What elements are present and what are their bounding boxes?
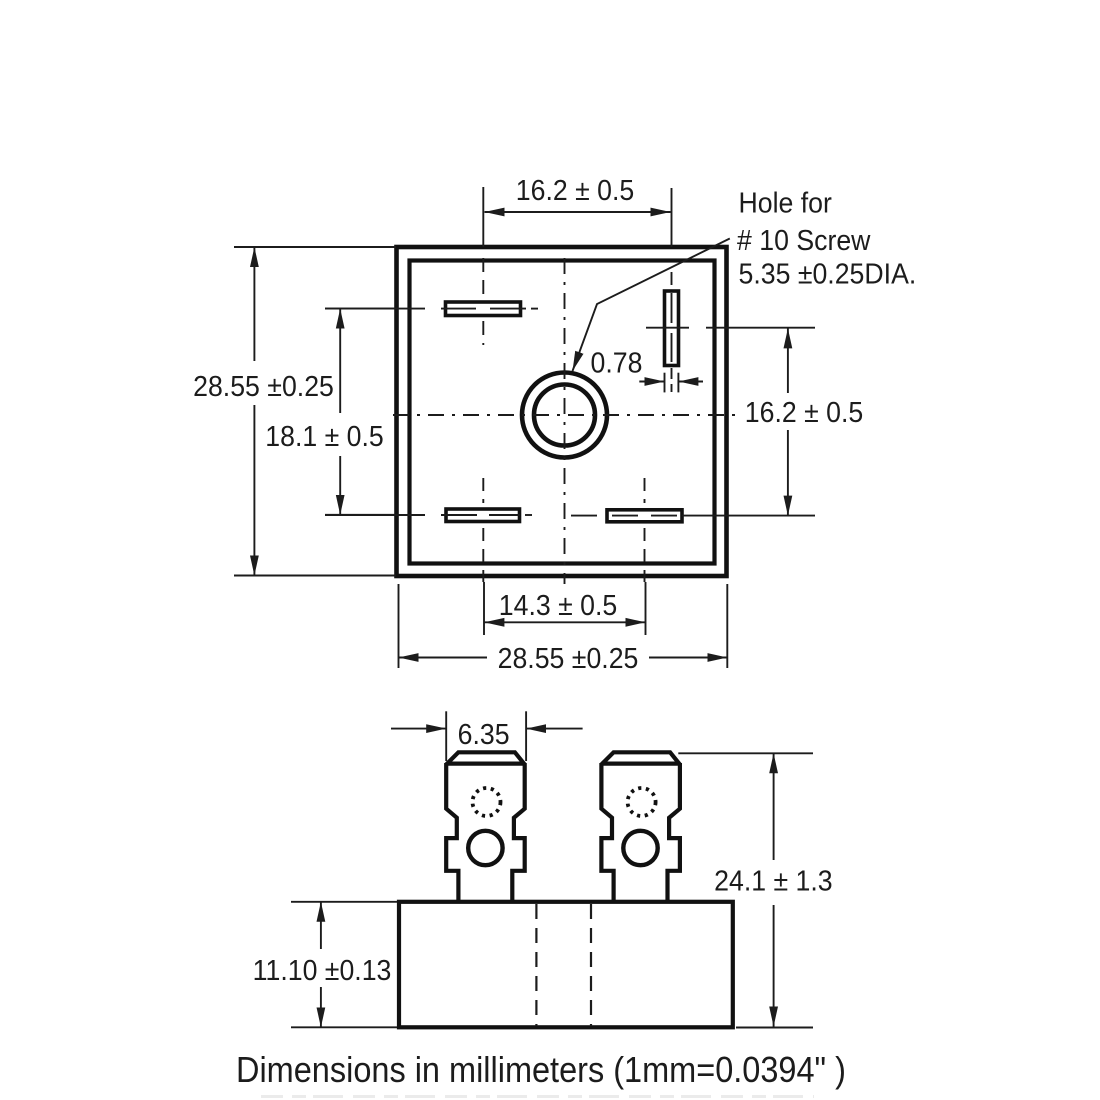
slot terminal bottom-right xyxy=(607,510,682,522)
vertical center line of square xyxy=(564,258,566,584)
svg-text:28.55 ±0.25: 28.55 ±0.25 xyxy=(193,370,334,402)
svg-text:28.55 ±0.25: 28.55 ±0.25 xyxy=(498,642,639,674)
terminal 2 hole circle xyxy=(623,831,657,865)
center line through bottom-left slot xyxy=(325,478,532,582)
svg-text:5.35 ±0.25DIA.: 5.35 ±0.25DIA. xyxy=(739,257,917,289)
slot terminal top-right vertical xyxy=(665,291,679,366)
hidden edge dashed line right xyxy=(590,904,592,1026)
hidden edge dashed line left xyxy=(535,904,537,1026)
dimension 28.55 bottom: dimension line with arrows (gap for text) xyxy=(399,657,488,659)
terminal 2 dotted circle (hidden hole) xyxy=(628,788,656,816)
dimension 28.55 left: extension lines xyxy=(234,247,396,576)
faston terminal 2 (right) outline xyxy=(601,752,680,901)
svg-text:0.78: 0.78 xyxy=(591,346,643,378)
dimension 0.78: extension lines xyxy=(665,373,679,393)
annotation leader line to hole xyxy=(573,239,730,372)
dimension 6.35: extension lines xyxy=(446,711,526,761)
dimension 14.3 bottom: extension lines xyxy=(484,582,646,635)
dimension 16.2 top: extension lines xyxy=(483,187,671,247)
svg-text:24.1 ± 1.3: 24.1 ± 1.3 xyxy=(714,864,832,896)
faint cropped text remnant at bottom edge xyxy=(261,1095,814,1098)
terminal 1 dotted circle (hidden hole) xyxy=(473,788,501,816)
svg-text:6.35: 6.35 xyxy=(458,718,510,750)
svg-text:11.10 ±0.13: 11.10 ±0.13 xyxy=(253,954,392,986)
dimension 11.10: extension lines xyxy=(291,902,397,1028)
svg-text:16.2 ± 0.5: 16.2 ± 0.5 xyxy=(516,174,634,206)
dimension 18.1 left: dimension line with arrows (gap for text) xyxy=(339,309,341,413)
horizontal center line of square xyxy=(393,414,741,416)
svg-text:# 10 Screw: # 10 Screw xyxy=(737,224,871,256)
outer square (package body outline) xyxy=(397,247,727,576)
center line through top-right vertical slot xyxy=(671,272,673,392)
svg-text:14.3 ± 0.5: 14.3 ± 0.5 xyxy=(499,589,617,621)
dimension 0.78: outside arrows xyxy=(639,381,664,383)
dimension 24.1: dimension line with arrows (gap for text) xyxy=(773,753,775,860)
svg-text:Dimensions in millimeters (1mm: Dimensions in millimeters (1mm=0.0394" ) xyxy=(236,1050,846,1090)
terminal 1 hole circle xyxy=(468,831,502,865)
center line through bottom-right slot xyxy=(571,478,815,582)
center mounting hole outer circle xyxy=(522,373,607,458)
body rectangle (side view) xyxy=(399,902,733,1028)
dimension 16.2 right: extension lines xyxy=(646,327,815,329)
center line through top-left slot xyxy=(325,258,538,345)
dimension 16.2 top: dimension line with arrows xyxy=(485,211,671,213)
dimension 24.1: extension lines xyxy=(678,753,813,1027)
faston terminal 1 (left) outline xyxy=(446,752,525,901)
dimension 16.2 right: dimension line with arrows (gap for text) xyxy=(787,328,789,393)
slot terminal top-left xyxy=(446,302,521,316)
svg-text:16.2 ± 0.5: 16.2 ± 0.5 xyxy=(745,396,863,428)
inner square (package top face) xyxy=(410,261,715,564)
slot terminal bottom-left xyxy=(446,509,520,522)
center mounting hole inner circle xyxy=(534,385,595,446)
dimension 6.35: outside arrows xyxy=(391,728,446,730)
svg-text:18.1 ± 0.5: 18.1 ± 0.5 xyxy=(265,420,383,452)
dimension 28.55 left: dimension line with arrows (gap for text) xyxy=(253,247,255,361)
dimension 14.3 bottom: dimension line with arrows xyxy=(484,621,645,623)
dimension 18.1 left: extension lines xyxy=(325,309,397,515)
dimension 11.10: dimension line with arrows (gap for text) xyxy=(320,902,322,949)
svg-text:Hole for: Hole for xyxy=(739,186,832,218)
dimension 28.55 bottom: extension lines xyxy=(399,584,728,668)
